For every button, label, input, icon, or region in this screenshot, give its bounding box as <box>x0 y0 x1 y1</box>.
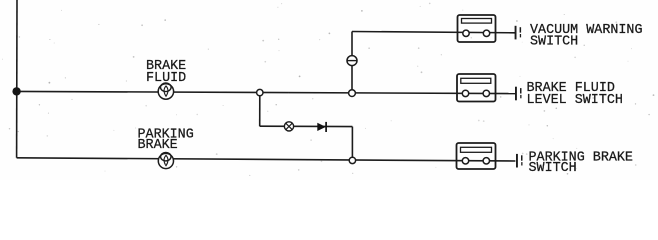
svg-text:FLUID: FLUID <box>146 71 186 86</box>
junction dot: left bus to brake fluid line <box>12 87 20 95</box>
svg-text:SWITCH: SWITCH <box>530 35 578 50</box>
node B: open connector, riser to vacuum line <box>349 90 356 97</box>
svg-text:LEVEL SWITCH: LEVEL SWITCH <box>527 93 623 108</box>
diode D1 <box>317 122 326 132</box>
connector terminal for S3 <box>516 154 523 168</box>
wire: left vertical bus <box>16 0 18 158</box>
label: VACUUM WARNING SWITCH <box>530 23 643 50</box>
svg-text:SWITCH: SWITCH <box>529 161 577 176</box>
lamp symbol (circled X) on branch <box>284 122 293 131</box>
wire: vertical riser to vacuum line <box>351 32 353 94</box>
wire: top horizontal (vacuum warning line) <box>352 32 515 33</box>
wire: bottom horizontal (parking brake line) <box>17 158 516 161</box>
connector terminal for S1 <box>515 26 522 40</box>
switch S3: parking brake switch body <box>457 143 496 169</box>
wire: branch horizontal through diode <box>260 125 353 127</box>
wire: middle horizontal (brake fluid line) <box>17 91 516 93</box>
label: BRAKE FLUID LEVEL SWITCH <box>527 81 623 108</box>
connector terminal for S2 <box>515 87 522 101</box>
node A: open connector on brake fluid line <box>257 89 263 95</box>
switch S1: vacuum warning switch body <box>458 15 496 42</box>
label: PARKING BRAKE (lamp) <box>138 127 194 153</box>
label: PARKING BRAKE SWITCH <box>529 150 633 176</box>
svg-text:BRAKE: BRAKE <box>138 138 178 153</box>
wire: branch down from node A <box>259 93 261 127</box>
inline connector (circled bar) on riser <box>347 56 357 66</box>
label: BRAKE FLUID (lamp) <box>146 59 186 86</box>
lamp: BRAKE FLUID warning lamp <box>158 83 173 99</box>
lamp: PARKING BRAKE warning lamp <box>158 153 173 169</box>
node C: open connector on parking brake line <box>349 157 355 163</box>
switch S2: brake fluid level switch body <box>457 74 496 102</box>
scan speckle noise (decorative) <box>2 3 654 176</box>
wire: branch down to bottom line <box>351 127 353 161</box>
